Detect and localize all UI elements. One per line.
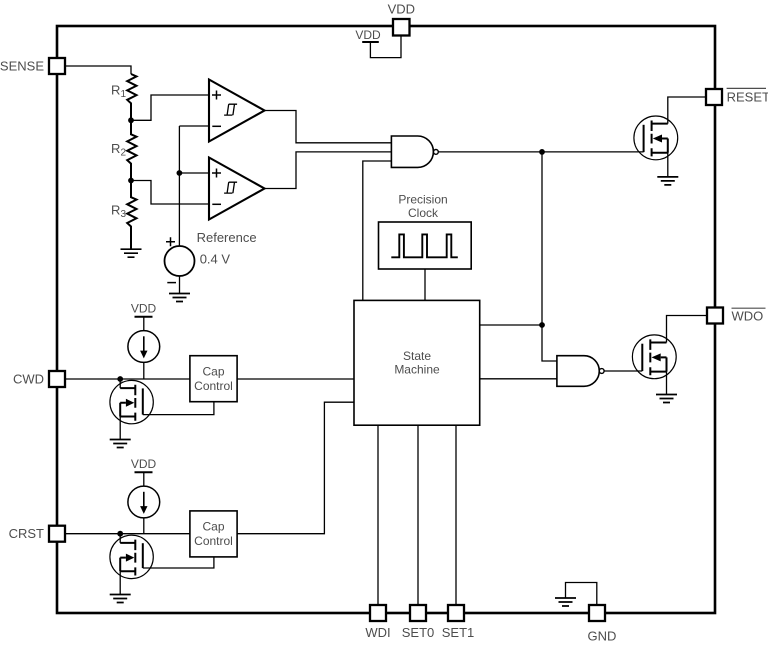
wire Cap Control 1 to state machine — [237, 378, 354, 380]
reference source V1 0.4 V — [165, 230, 257, 283]
svg-text:Cap: Cap — [202, 520, 224, 534]
current source I1 — [128, 301, 160, 379]
wire state machine to SET1 pin — [455, 425, 457, 605]
wire SENSE to R1 top — [65, 66, 131, 74]
svg-text:Cap: Cap — [202, 365, 224, 379]
wire R2/R3 tap to comparator U2 - input — [131, 181, 209, 205]
wire Q1 drain to RESET pin — [668, 97, 706, 124]
wire CRST pin to Cap Control 2 — [65, 533, 190, 535]
ground below Q3 — [110, 440, 131, 448]
transistor Q1 (RESET output FET) — [634, 116, 678, 160]
ground at GND pin — [555, 598, 576, 606]
svg-text:Machine: Machine — [394, 363, 440, 377]
svg-text:VDD: VDD — [388, 2, 415, 17]
wire internal VDD hook — [370, 35, 401, 58]
transistor Q4 (CRST input FET) — [110, 535, 153, 578]
wire NAND U3 output to Q1 gate — [439, 151, 644, 153]
wire clock to state machine — [424, 269, 426, 300]
pin CRST — [49, 526, 65, 542]
wire CWD pin to Cap Control 1 — [65, 378, 190, 380]
wire Cap Control 1 to Q3 gate — [143, 402, 214, 415]
wire Cap Control 2 to Q4 gate — [143, 557, 214, 568]
svg-text:0.4 V: 0.4 V — [200, 252, 231, 267]
resistor R2 — [127, 120, 136, 180]
svg-text:Reference: Reference — [197, 230, 257, 245]
svg-text:RESET: RESET — [727, 90, 768, 105]
pin WDO — [707, 308, 723, 324]
wire U2 output to NAND U3 input 2 — [265, 152, 392, 189]
svg-text:VDD: VDD — [355, 28, 381, 42]
wire Q2 source to ground — [666, 372, 668, 395]
svg-text:CWD: CWD — [13, 372, 44, 387]
wire reference to U2 + input — [179, 172, 209, 174]
junction R1/R2 — [128, 117, 134, 123]
ground below Q1 — [657, 177, 678, 185]
wire reference to ground — [179, 276, 181, 294]
svg-text:Control: Control — [194, 534, 233, 548]
wire NAND U3 input 3 from state machine — [363, 161, 392, 300]
wire state machine to WDI pin — [377, 425, 379, 605]
wire Q1 source to ground — [667, 153, 669, 177]
NAND gate U4 — [557, 356, 604, 387]
wire state machine to node B — [480, 324, 542, 326]
wire NAND U4 output to Q2 gate — [604, 370, 642, 372]
pin SET1 — [448, 605, 464, 621]
pin WDI — [370, 605, 386, 621]
comparator U2 — [209, 158, 265, 220]
wire reference to U1 - input — [179, 125, 209, 127]
junction CRST net — [117, 531, 123, 537]
svg-text:Clock: Clock — [408, 206, 439, 220]
svg-text:WDO: WDO — [732, 309, 764, 324]
wire Q3 drain to CWD net — [119, 379, 121, 388]
pin CWD — [49, 371, 65, 387]
comparator U1 — [209, 80, 265, 142]
transistor Q3 (CWD input FET) — [110, 380, 153, 423]
svg-text:CRST: CRST — [9, 526, 44, 541]
svg-text:SENSE: SENSE — [0, 59, 44, 74]
node B junction (state machine output) — [539, 322, 545, 328]
wire state machine to SET0 pin — [417, 425, 419, 605]
pin SET0 — [410, 605, 426, 621]
svg-text:VDD: VDD — [131, 301, 157, 315]
resistor R3 — [127, 181, 136, 250]
transistor Q2 (WDO output FET) — [632, 335, 676, 379]
pin SENSE — [49, 58, 65, 74]
junction reference net — [177, 170, 183, 176]
wire Cap Control 2 to state machine — [237, 402, 354, 534]
wire Q4 source to ground — [119, 571, 121, 594]
pin VDD — [393, 19, 410, 36]
current source I2 — [128, 457, 160, 534]
wire Q4 drain to CRST net — [119, 534, 121, 543]
Precision Clock block — [379, 193, 472, 270]
svg-text:SET0: SET0 — [402, 625, 435, 640]
IC boundary box — [57, 26, 715, 613]
Cap Control block 2 — [190, 511, 237, 557]
svg-text:WDI: WDI — [365, 625, 390, 640]
wire node A vertical to NAND U4 input 1 — [542, 152, 557, 361]
pin GND — [589, 605, 605, 621]
svg-text:State: State — [403, 349, 431, 363]
wire U1 output to NAND U3 input 1 — [265, 111, 392, 143]
wire R1/R2 tap to comparator U1 + input — [131, 95, 209, 120]
svg-text:Control: Control — [194, 379, 233, 393]
wire Q3 source to ground — [119, 417, 121, 440]
wire Q2 drain to WDO pin — [667, 316, 708, 343]
resistor R1 — [127, 74, 136, 120]
wire reference net vertical — [178, 126, 180, 246]
svg-text:SET1: SET1 — [442, 625, 475, 640]
svg-text:VDD: VDD — [131, 457, 157, 471]
svg-text:GND: GND — [588, 628, 617, 643]
internal VDD rail symbol — [362, 41, 379, 43]
ground below R3 — [121, 249, 142, 257]
Cap Control block 1 — [190, 356, 237, 402]
wire GND pin hook — [566, 583, 597, 606]
pin RESET — [706, 89, 722, 105]
ground below Q4 — [110, 595, 131, 603]
junction CWD net — [117, 376, 123, 382]
ground below Q2 — [656, 395, 677, 403]
svg-text:Precision: Precision — [398, 193, 447, 207]
State Machine block — [354, 300, 480, 425]
ground below reference — [169, 294, 190, 302]
NAND gate U3 — [391, 136, 438, 167]
node A junction (NAND U3 output) — [539, 149, 545, 155]
wire state machine to NAND U4 input 2 — [480, 378, 557, 380]
junction R2/R3 — [128, 178, 134, 184]
